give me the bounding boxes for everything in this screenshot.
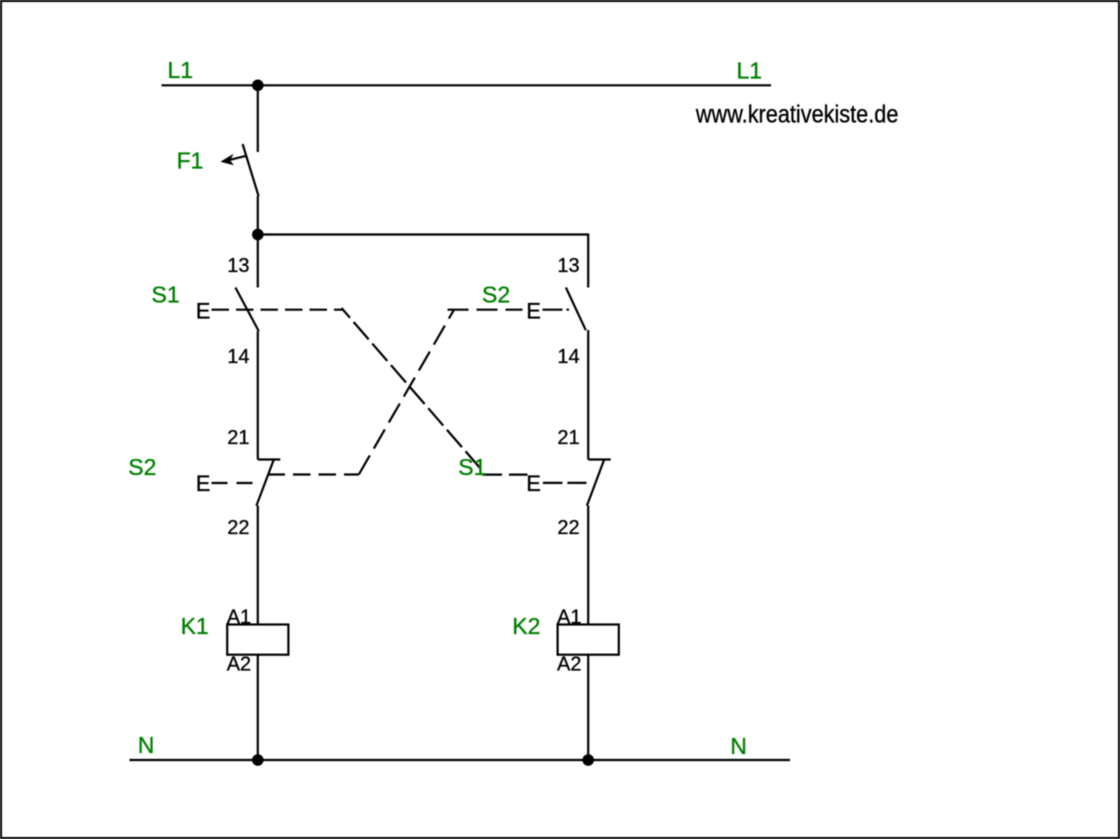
wire right drop bbox=[587, 234, 589, 288]
svg-text:E: E bbox=[526, 471, 541, 496]
wire F1 top bbox=[257, 85, 259, 152]
wire 22 to coil bbox=[257, 506, 259, 625]
svg-text:22: 22 bbox=[557, 517, 579, 539]
svg-text:S2: S2 bbox=[128, 454, 156, 480]
contact S1 NC right 21-22 bbox=[458, 427, 610, 625]
svg-text:E: E bbox=[196, 298, 211, 323]
svg-text:K1: K1 bbox=[181, 613, 209, 639]
S1 NO blade bbox=[235, 288, 258, 332]
linkage S2 left horizontal bbox=[448, 309, 523, 311]
svg-text:14: 14 bbox=[227, 346, 249, 368]
node distribution junction bbox=[252, 229, 264, 241]
svg-text:S1: S1 bbox=[152, 282, 180, 308]
wire mid rail bbox=[258, 233, 588, 235]
linkage S1 dashed diagonal bbox=[342, 308, 481, 468]
linkage S2 dashed horizontal bbox=[268, 473, 359, 475]
wire 14 to 21 bbox=[257, 331, 259, 460]
S2 NO blade bbox=[566, 288, 586, 331]
svg-text:N: N bbox=[730, 733, 747, 759]
wire 22 to coil bbox=[587, 506, 589, 625]
linkage S2 dashed diagonal bbox=[359, 310, 454, 475]
linkage S2 E stub bbox=[543, 309, 570, 311]
node N right junction bbox=[582, 754, 594, 766]
wire N rail bbox=[130, 759, 791, 761]
svg-text:F1: F1 bbox=[177, 148, 204, 174]
node N left junction bbox=[252, 754, 264, 766]
F1 actuator arrow bbox=[229, 156, 247, 160]
svg-text:14: 14 bbox=[557, 346, 579, 368]
node L1 junction bbox=[252, 80, 264, 92]
svg-text:L1: L1 bbox=[168, 57, 194, 83]
svg-text:L1: L1 bbox=[737, 58, 763, 84]
svg-text:K2: K2 bbox=[512, 613, 540, 639]
svg-text:N: N bbox=[138, 732, 155, 758]
breaker F1 bbox=[177, 85, 259, 234]
wire coil to N bbox=[587, 655, 589, 760]
svg-text:22: 22 bbox=[227, 517, 249, 539]
svg-text:www.kreativekiste.de: www.kreativekiste.de bbox=[695, 100, 898, 128]
svg-text:S1: S1 bbox=[458, 454, 486, 480]
svg-text:E: E bbox=[526, 298, 541, 323]
F1 blade bbox=[243, 144, 259, 196]
contact S1 NO left 13-14 bbox=[152, 255, 259, 460]
S1 NC blade bbox=[587, 459, 605, 506]
K1 coil rect bbox=[227, 625, 288, 655]
svg-text:A2: A2 bbox=[227, 654, 251, 676]
S2 NC blade bbox=[256, 459, 274, 506]
svg-text:E: E bbox=[196, 471, 211, 496]
linkage S1 dashed horizontal bbox=[212, 309, 344, 311]
NC bar bbox=[258, 458, 281, 460]
svg-text:13: 13 bbox=[557, 255, 579, 277]
K2 coil rect bbox=[558, 625, 619, 655]
svg-text:21: 21 bbox=[557, 427, 579, 449]
coil K1 bbox=[181, 607, 289, 760]
svg-text:A2: A2 bbox=[557, 654, 581, 676]
contact S2 NO right 13-14 bbox=[482, 255, 588, 460]
wire F1 bottom bbox=[257, 196, 259, 235]
svg-text:21: 21 bbox=[227, 427, 249, 449]
linkage S2 bottom E stub bbox=[212, 482, 254, 484]
wire left drop bbox=[257, 235, 259, 288]
contact S2 NC left 21-22 bbox=[128, 427, 280, 625]
linkage S1 E stub bbox=[543, 482, 587, 484]
wire coil to N bbox=[257, 655, 259, 760]
wire L1 rail bbox=[162, 84, 772, 86]
NC bar bbox=[588, 458, 611, 460]
svg-text:13: 13 bbox=[227, 255, 249, 277]
coil K2 bbox=[512, 607, 619, 760]
svg-text:S2: S2 bbox=[482, 282, 510, 308]
linkage S1 horizontal bbox=[483, 474, 528, 476]
wire 14 to 21 bbox=[587, 330, 589, 460]
